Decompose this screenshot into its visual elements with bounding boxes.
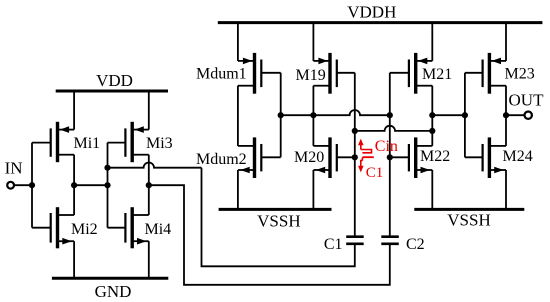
- node IN junction: [29, 182, 35, 188]
- transistor M22 (NMOS): [390, 137, 450, 178]
- svg-text:C1: C1: [324, 236, 343, 253]
- wire Mi3 source to VDD: [148, 91, 150, 130]
- terminal OUT: [506, 91, 544, 119]
- svg-text:Mi2: Mi2: [71, 221, 98, 238]
- wire M23 source to VDDH: [505, 23, 507, 61]
- terminal IN: [5, 159, 23, 189]
- wire Mdum1 source to VDDH: [237, 23, 239, 61]
- wire M22 source to VSSH: [431, 170, 433, 209]
- transistor Mi3 (PMOS): [108, 122, 173, 162]
- svg-text:M19: M19: [296, 67, 326, 84]
- node M21/M22 drain / bus2 junction: [429, 128, 435, 134]
- power rail VDDH: [218, 3, 543, 23]
- wire Mdum2 source to VSSH: [237, 170, 239, 209]
- svg-text:M24: M24: [503, 148, 533, 165]
- wire Mi2 source to GND: [73, 241, 75, 278]
- svg-text:OUT: OUT: [509, 91, 545, 110]
- wire Mdum1-Mdum2 drain column: [237, 86, 239, 146]
- node M21/M22 drain / bus1-right junction: [429, 112, 435, 118]
- transistor M21 (PMOS): [390, 53, 452, 94]
- node Mdum gate junction: [278, 112, 284, 118]
- transistor Mi4 (NMOS): [108, 207, 172, 248]
- wire M19-M20 drain column: [312, 86, 314, 146]
- svg-text:VSSH: VSSH: [447, 211, 490, 230]
- wire M21-M22 drain column: [431, 86, 433, 146]
- node C1 net / bus2 junction: [352, 128, 358, 134]
- wire Mi1 source to VDD: [73, 91, 75, 130]
- node C1 net / M20 gate junction: [352, 154, 358, 160]
- ground rail VSSH (right): [414, 209, 524, 229]
- svg-text:C2: C2: [406, 236, 425, 253]
- wire M19 source to VDDH: [312, 23, 314, 61]
- wire Mdum1/Mdum2 gate bus: [280, 73, 282, 158]
- capacitor C2: [381, 236, 424, 253]
- node C2 net / M22 gate junction: [387, 154, 393, 160]
- transistor M20 (NMOS): [294, 137, 355, 178]
- svg-text:IN: IN: [5, 159, 23, 178]
- svg-text:GND: GND: [95, 282, 132, 301]
- svg-text:M23: M23: [505, 66, 535, 83]
- node C2 net / bus1 junction: [387, 112, 393, 118]
- node M19/M20 drain junction: [310, 112, 316, 118]
- ground rail GND: [52, 278, 168, 301]
- svg-text:VSSH: VSSH: [257, 211, 300, 230]
- transistor M19 (PMOS): [296, 53, 355, 94]
- capacitor C1: [324, 236, 364, 253]
- wire M23/M24 gate bus: [464, 73, 466, 158]
- annotation: parasitic capacitor Cin between gate node and C1 (red): [358, 138, 398, 181]
- node gate bus branch: [104, 165, 110, 171]
- node OUT junction: [503, 112, 509, 118]
- svg-text:Mdum1: Mdum1: [196, 66, 247, 83]
- wire C1 net vertical: M19/M20 gates to C1 top: [354, 73, 356, 236]
- svg-text:M20: M20: [294, 149, 324, 166]
- svg-text:C1: C1: [366, 165, 384, 181]
- wire M24 source to VSSH: [505, 170, 507, 209]
- wire Mi1-Mi2 drain column (inverter 1 output): [73, 155, 75, 215]
- transistor Mdum2 (NMOS): [196, 137, 281, 178]
- wire B: inverter 2 output to C2 bottom: [149, 185, 390, 285]
- power rail VDD: [56, 71, 168, 91]
- transistor Mdum1 (PMOS): [196, 53, 281, 94]
- transistor Mi1 (PMOS): [32, 122, 100, 162]
- wire inverter 1 output to Mi3/Mi4 gate bus: [74, 184, 107, 186]
- svg-text:Mi4: Mi4: [145, 221, 172, 238]
- wire Mi3-Mi4 drain column (inverter 2 output): [148, 155, 150, 215]
- wire Mi3/Mi4 gate bus: [107, 143, 109, 228]
- svg-text:VDDH: VDDH: [347, 3, 396, 22]
- svg-text:M22: M22: [420, 148, 450, 165]
- transistor M24 (NMOS): [465, 137, 533, 178]
- wire IN gate bus (gates of Mi1, Mi2): [31, 143, 33, 228]
- node inverter 1 output: [71, 182, 77, 188]
- svg-text:Mi3: Mi3: [146, 135, 173, 152]
- svg-text:VDD: VDD: [96, 71, 133, 90]
- wire C2 net vertical: M21/M22 gates to C2 top: [389, 73, 391, 236]
- transistor M23 (PMOS): [465, 53, 535, 94]
- wire bus2: M21/M22 drains to M19/M20 gates (hop over C2 net): [355, 126, 433, 131]
- wire Mi4 source to GND: [148, 241, 150, 278]
- svg-text:Mi1: Mi1: [74, 135, 101, 152]
- svg-text:Mdum2: Mdum2: [196, 151, 247, 168]
- node gate bus join: [104, 182, 110, 188]
- svg-text:M21: M21: [422, 66, 452, 83]
- wire IN lead: [14, 184, 32, 186]
- node M23/M24 gate junction: [462, 112, 468, 118]
- ground rail VSSH (left): [219, 209, 332, 230]
- wire bus1-right: M21/M22 drains to M23/M24 gates: [432, 114, 465, 116]
- wire M21 source to VDDH: [431, 23, 433, 61]
- wire bus1-left: M19/M20 drains to Mdum gates and C2 top / M21,M22 gates (hop over C1 net): [281, 110, 390, 115]
- wire M23-M24 drain column: [505, 86, 507, 146]
- svg-text:Cin: Cin: [375, 138, 398, 155]
- wire A: inverter 1 output to C1 bottom (hop over inverter 2 output): [108, 163, 355, 267]
- wire M20 source to VSSH: [312, 170, 314, 209]
- node inverter 2 output: [146, 182, 152, 188]
- transistor Mi2 (NMOS): [32, 207, 98, 248]
